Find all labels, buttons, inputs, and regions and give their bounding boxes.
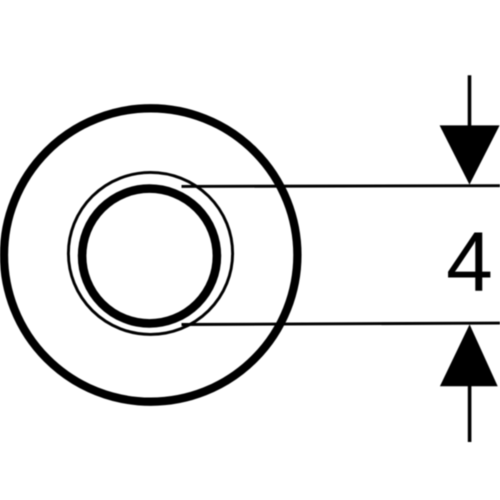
svg-text:4: 4 [446,215,493,309]
upper arrowhead (down) [440,125,500,184]
thick circle (pipe bore, d=4) [82,189,217,324]
upper dimension line [182,184,500,188]
lower arrowhead (up) [440,324,498,386]
upper arrow leader (vertical) [468,75,472,127]
thin circle (seal ring) [68,172,232,334]
outer circle (flange outline) [4,108,297,401]
lower dimension line [182,323,500,324]
lower arrow leader (vertical) [468,385,472,442]
